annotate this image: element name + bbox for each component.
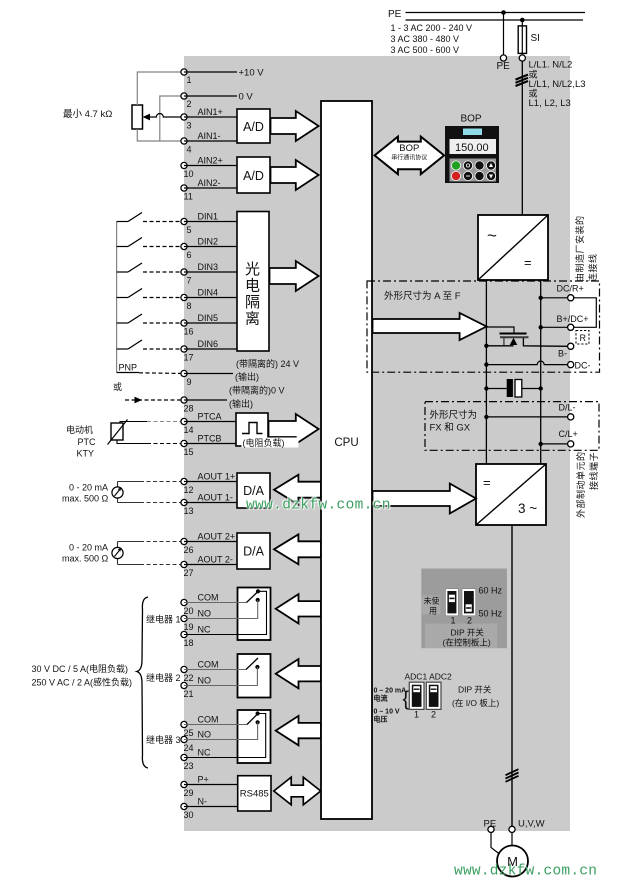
wire supply rail line 2: [406, 19, 584, 21]
svg-text:最小 4.7 kΩ: 最小 4.7 kΩ: [63, 109, 112, 120]
wire AOUT1-: [184, 502, 237, 504]
wire gate lead: [487, 327, 514, 333]
A/D converter box 2: [237, 157, 270, 193]
svg-text:15: 15: [184, 447, 194, 457]
signal arrow PTC to CPU: [269, 414, 319, 444]
transistor chopper channel bar: [500, 336, 529, 338]
relay K3 box: [238, 710, 271, 763]
svg-text:NO: NO: [198, 730, 212, 740]
svg-text:COM: COM: [198, 660, 219, 670]
terminal 23: [181, 754, 187, 760]
node PE supply rail (top line 1): [406, 12, 586, 14]
terminal 20: [181, 599, 187, 605]
PTC input box: [236, 413, 268, 446]
wire PE to motor frame: [491, 833, 500, 855]
svg-text:或: 或: [529, 69, 538, 80]
terminal 24: [181, 736, 187, 742]
wire AOUT1+: [184, 481, 237, 483]
wire PTCA to terminal 14: [120, 422, 147, 424]
relay rating brace: [137, 597, 148, 768]
terminal DC/R+: [568, 295, 574, 301]
DC link capacitor plate black: [507, 379, 513, 397]
svg-text:L1, L2, L3: L1, L2, L3: [529, 98, 571, 109]
svg-text:电: 电: [245, 278, 260, 295]
terminal PE input: [500, 55, 506, 61]
svg-text:27: 27: [184, 568, 194, 578]
svg-text:150.00: 150.00: [455, 142, 489, 154]
terminal U V W: [509, 826, 515, 832]
signal arrow A/D 1 to CPU: [271, 111, 319, 141]
svg-text:N-: N-: [198, 797, 208, 807]
svg-text:=: =: [483, 475, 491, 490]
wire source to B- rail: [486, 345, 513, 347]
svg-text:=: =: [524, 255, 532, 270]
wire DIN5: [184, 322, 237, 324]
svg-text:DIN5: DIN5: [198, 313, 219, 323]
svg-text:DC/R+: DC/R+: [557, 284, 584, 294]
wire terminal 2 branch: [160, 96, 184, 141]
svg-text:3 AC 500 - 600 V: 3 AC 500 - 600 V: [391, 45, 460, 55]
terminal 9: [181, 370, 187, 376]
junction DC- left rail: [484, 362, 488, 366]
svg-text:CPU: CPU: [334, 437, 358, 449]
svg-text:30 V DC / 5 A(电阻负载): 30 V DC / 5 A(电阻负载): [32, 663, 129, 674]
wire N-: [184, 806, 238, 808]
svg-text:继电器 1: 继电器 1: [146, 614, 181, 625]
svg-text:www.dzkfw.com.cn: www.dzkfw.com.cn: [246, 498, 391, 514]
signal double arrow RS485 to CPU: [274, 777, 321, 805]
svg-text:1 - 3 AC 200 - 240 V: 1 - 3 AC 200 - 240 V: [391, 23, 473, 33]
terminal 16: [181, 320, 187, 326]
BOP button red: [451, 171, 461, 181]
svg-text:6: 6: [187, 250, 192, 260]
svg-text:PE: PE: [388, 9, 402, 20]
svg-text:3 AC 380 - 480 V: 3 AC 380 - 480 V: [391, 34, 460, 44]
svg-text:PNP: PNP: [119, 363, 138, 373]
terminal 26: [181, 538, 187, 544]
svg-text:0 - 20 mA: 0 - 20 mA: [69, 483, 108, 493]
svg-text:9: 9: [187, 377, 192, 387]
svg-text:AIN2+: AIN2+: [198, 156, 223, 166]
svg-text:23: 23: [184, 761, 194, 771]
junction on L rail: [520, 18, 525, 23]
terminal 12: [181, 478, 187, 484]
svg-text:P+: P+: [198, 775, 209, 785]
relay K2 box: [238, 654, 271, 698]
svg-text:Fn: Fn: [478, 164, 484, 169]
svg-text:AOUT 1+: AOUT 1+: [198, 472, 236, 482]
svg-text:DIN3: DIN3: [198, 262, 219, 272]
svg-text:U,V,W: U,V,W: [518, 819, 545, 830]
svg-text:1: 1: [187, 75, 192, 85]
svg-text:4: 4: [187, 145, 192, 155]
svg-text:AIN1-: AIN1-: [198, 131, 221, 141]
terminal 6: [181, 243, 187, 249]
terminal 1: [181, 69, 187, 75]
wire DC bus right rail: [540, 280, 542, 464]
svg-text:0 - 20 mA: 0 - 20 mA: [69, 543, 108, 553]
wire B+/DC+: [541, 326, 568, 328]
svg-text:2: 2: [431, 710, 436, 720]
svg-text:BOP: BOP: [460, 114, 481, 125]
signal arrow CPU to D/A 2: [274, 534, 321, 564]
svg-text:60 Hz: 60 Hz: [479, 586, 503, 596]
svg-text:离: 离: [245, 311, 260, 328]
svg-text:串行通讯协议: 串行通讯协议: [391, 154, 427, 162]
signal arrow CPU to inverter: [373, 484, 477, 514]
terminal 29: [181, 781, 187, 787]
terminal 7: [181, 269, 187, 275]
wire PNP to terminal 9: [117, 372, 139, 374]
junction C/L+ right rail: [539, 442, 543, 446]
svg-text:光: 光: [245, 261, 260, 278]
terminal L/L1 input: [519, 55, 525, 61]
terminal 13: [181, 499, 187, 505]
wire UVW to motor: [511, 833, 513, 846]
svg-text:由制造厂安装的: 由制造厂安装的: [574, 215, 585, 282]
transistor drain stub and wire to B-: [523, 338, 567, 346]
wire terminal 9 stub: [184, 373, 233, 375]
terminal 27: [181, 561, 187, 567]
svg-text:D/L-: D/L-: [559, 403, 576, 413]
svg-text:电动机: 电动机: [66, 424, 93, 435]
wire PTCB to terminal 15: [117, 440, 147, 444]
BOP button down: [486, 171, 496, 181]
relay3 NO contact dot: [256, 720, 260, 724]
wire D/L-: [486, 416, 567, 418]
wire AOUT2-: [184, 564, 237, 566]
junction D/L- left rail: [484, 415, 488, 419]
svg-text:DIP 开关: DIP 开关: [458, 685, 492, 695]
svg-text:外形尺寸为 A 至 F: 外形尺寸为 A 至 F: [384, 290, 461, 302]
svg-text:连接线: 连接线: [587, 253, 598, 282]
wire AIN1-: [184, 140, 237, 142]
wire NO relay3: [184, 722, 258, 739]
signal arrow CPU to relay1: [276, 594, 321, 623]
DC link capacitor plate white: [515, 380, 522, 398]
signal arrow CPU to D/A 1: [274, 475, 321, 505]
svg-text:C/L+: C/L+: [559, 429, 578, 439]
svg-text:(在控制板上): (在控制板上): [443, 638, 491, 648]
wire AIN1+: [184, 116, 237, 118]
svg-text:DIN4: DIN4: [198, 288, 219, 298]
junction capacitor right rail: [539, 386, 543, 390]
svg-text:12: 12: [184, 485, 194, 495]
transistor body arrow: [510, 338, 518, 345]
BOP button green: [451, 161, 461, 171]
DIP switch 1 (50/60Hz): [445, 589, 458, 616]
terminal 30: [181, 803, 187, 809]
svg-text:A/D: A/D: [243, 169, 264, 183]
terminal 22: [181, 666, 187, 672]
svg-text:AIN2-: AIN2-: [198, 178, 221, 188]
svg-text:AOUT 2-: AOUT 2-: [198, 555, 233, 565]
svg-text:隔: 隔: [245, 294, 260, 311]
wire COM relay1: [184, 602, 247, 604]
junction on PE rail: [501, 10, 506, 15]
svg-text:30: 30: [184, 810, 194, 820]
svg-text:NC: NC: [198, 748, 211, 758]
BOP button reverse: [463, 171, 473, 181]
BOP button jog: [463, 161, 473, 171]
wire DIN2: [184, 246, 237, 248]
switch DIN1: [117, 213, 184, 222]
wire pot bottom to terminal 4: [137, 129, 184, 141]
terminal B+/DC+: [568, 324, 574, 330]
relay K1 box: [238, 588, 271, 641]
svg-text:PTC: PTC: [78, 437, 97, 447]
svg-text:DIP 开关: DIP 开关: [451, 628, 485, 638]
svg-text:外部制动单元的: 外部制动单元的: [575, 451, 586, 518]
svg-text:2: 2: [467, 616, 472, 626]
wire capacitor left: [486, 388, 506, 390]
signal arrow opto to CPU: [270, 261, 319, 291]
svg-text:D/A: D/A: [243, 484, 265, 498]
relay2 blade open: [246, 658, 258, 670]
svg-text:FX 和 GX: FX 和 GX: [430, 423, 471, 434]
relay3 top contact dot: [256, 711, 260, 715]
motor M: [497, 846, 528, 877]
DIP switch panel (control board): [421, 569, 507, 649]
terminal 10: [181, 162, 187, 168]
D/A converter box 2: [237, 533, 270, 569]
ammeter AOUT2 loop: [117, 542, 119, 565]
inverter block: [476, 464, 546, 525]
svg-text:继电器 2: 继电器 2: [146, 672, 181, 683]
wire NC relay1: [184, 591, 267, 634]
terminal C/L+: [568, 441, 574, 447]
wire wiper to terminal 3 with hop: [147, 114, 184, 117]
svg-text:或: 或: [113, 381, 122, 392]
terminal 4: [181, 138, 187, 144]
switch DIN4: [117, 289, 184, 298]
thermistor PTC sensor: [111, 423, 123, 440]
svg-text:20: 20: [184, 606, 194, 616]
A/D converter box 1: [237, 109, 270, 143]
wire arrow into terminal 28: [125, 399, 184, 401]
signal arrow CPU to chopper gate: [373, 313, 487, 340]
svg-text:B+/DC+: B+/DC+: [557, 314, 589, 324]
wire DIN1: [184, 221, 237, 223]
BOP button P: [475, 171, 485, 181]
relay1 blade: [247, 591, 259, 603]
svg-text:(带隔离的)0 V: (带隔离的)0 V: [229, 385, 285, 396]
switch DIN5: [117, 314, 184, 323]
svg-text:24: 24: [184, 743, 194, 753]
terminal 18: [181, 631, 187, 637]
svg-text:COM: COM: [198, 715, 219, 725]
svg-text:17: 17: [184, 353, 194, 363]
terminal 14: [181, 418, 187, 424]
svg-text:13: 13: [184, 506, 194, 516]
relay3 blade: [247, 714, 258, 725]
svg-text:11: 11: [184, 192, 193, 202]
BOP button fn: [475, 161, 485, 171]
svg-text:KTY: KTY: [77, 449, 95, 459]
svg-text:AOUT 2+: AOUT 2+: [198, 532, 236, 542]
DIP caption lighter area: [425, 624, 497, 649]
DIP switch 2 (50/60Hz): [462, 589, 476, 616]
junction DC/R+: [539, 296, 543, 300]
BOP cyan window: [463, 129, 482, 136]
terminal B-: [568, 343, 574, 349]
wire L/L1 down to rectifier: [521, 61, 523, 215]
svg-text:或: 或: [529, 88, 538, 99]
wire AIN2-: [184, 187, 238, 189]
svg-text:10: 10: [184, 169, 194, 179]
unused label highlight: [421, 596, 440, 615]
terminal 17: [181, 346, 187, 352]
terminal PE output: [488, 826, 494, 832]
svg-text:PTCA: PTCA: [198, 412, 222, 422]
svg-text:NO: NO: [198, 609, 212, 619]
svg-text:3: 3: [187, 121, 192, 131]
junction B+/DC+: [539, 325, 543, 329]
BOP serial link double arrow: [375, 137, 445, 175]
svg-text:0 – 20 mA: 0 – 20 mA: [374, 688, 407, 695]
svg-text:19: 19: [184, 622, 194, 632]
svg-text:PE: PE: [497, 61, 511, 72]
svg-text:28: 28: [184, 404, 194, 414]
svg-text:电流: 电流: [374, 694, 388, 703]
svg-text:16: 16: [184, 327, 194, 337]
svg-text:NC: NC: [198, 625, 211, 635]
svg-text:1: 1: [414, 710, 419, 720]
wire PE drop: [503, 13, 505, 57]
svg-text:P: P: [478, 175, 481, 180]
svg-text:+10 V: +10 V: [239, 68, 265, 79]
wire DIN4: [184, 297, 237, 299]
wire NC relay3: [184, 714, 266, 758]
signal arrow A/D 2 to CPU: [271, 160, 319, 190]
label opto-isolation vertical: [245, 261, 260, 328]
svg-text:2: 2: [187, 99, 192, 109]
svg-text:继电器 3: 继电器 3: [146, 734, 181, 745]
svg-text:22: 22: [184, 673, 194, 683]
terminal 2: [181, 93, 187, 99]
svg-text:外形尺寸为: 外形尺寸为: [430, 409, 478, 421]
frame size FX GX dash-dot box: [425, 402, 599, 451]
relay1 NO contact dot: [256, 598, 260, 602]
BOP button up: [486, 161, 496, 171]
svg-text:DIN1: DIN1: [198, 212, 219, 222]
terminal 11: [181, 185, 187, 191]
svg-text:A/D: A/D: [243, 120, 264, 134]
switch DIN2: [117, 238, 184, 247]
relay2 NO contact dot: [255, 665, 259, 669]
wire DIN3: [184, 271, 237, 273]
potentiometer R pot: [132, 105, 143, 129]
BOP display 150.00: [450, 139, 497, 154]
svg-text:(输出): (输出): [229, 398, 253, 409]
terminal D/L-: [568, 414, 574, 420]
svg-text:RS485: RS485: [240, 789, 269, 800]
ammeter AOUT1 loop: [117, 482, 119, 503]
svg-text:DIN6: DIN6: [198, 339, 219, 349]
wire C/L+: [541, 443, 568, 445]
operator panel BOP body: [445, 126, 499, 183]
braking resistor R optional: [576, 331, 589, 345]
wire inverter output to motor: [511, 525, 513, 827]
terminal 5: [181, 218, 187, 224]
wire NO relay1: [184, 600, 258, 619]
ADC DIP switch 2: [426, 682, 441, 709]
wire NO relay2: [184, 667, 257, 686]
terminal 3: [181, 114, 187, 120]
svg-text:max. 500 Ω: max. 500 Ω: [62, 554, 109, 564]
svg-text:max. 500 Ω: max. 500 Ω: [62, 494, 109, 504]
terminal 28: [181, 397, 187, 403]
svg-text:29: 29: [184, 788, 194, 798]
svg-text:(输出): (输出): [235, 371, 259, 382]
wire DIN6: [184, 348, 237, 350]
svg-text:电压: 电压: [374, 715, 388, 724]
fuse SI: [518, 26, 526, 54]
wire DC/R+: [541, 297, 568, 299]
svg-text:PTCB: PTCB: [198, 434, 222, 444]
rectifier block: [478, 215, 548, 280]
signal arrow CPU to relay2: [276, 659, 321, 688]
terminal 15: [181, 440, 187, 446]
wire pot top to terminal 1: [137, 72, 184, 105]
svg-text:DC-: DC-: [575, 361, 591, 371]
svg-text:(带隔离的) 24 V: (带隔离的) 24 V: [236, 358, 299, 369]
switch DIN6: [117, 340, 184, 349]
svg-text:21: 21: [184, 689, 194, 699]
svg-text:5: 5: [187, 225, 192, 235]
digital input switch bus: [116, 222, 118, 373]
svg-text:DIN2: DIN2: [198, 237, 219, 247]
wire capacitor right: [522, 388, 541, 390]
junction capacitor left rail: [484, 386, 488, 390]
svg-text:PE: PE: [484, 819, 497, 830]
wire fuse to L/L1 terminal: [521, 53, 523, 58]
terminal 8: [181, 294, 187, 300]
svg-text:SI: SI: [531, 33, 540, 44]
svg-text:AIN1+: AIN1+: [198, 107, 223, 117]
PTC pulse symbol: [242, 423, 263, 434]
wire PTCB: [184, 443, 236, 445]
wire AIN2+: [184, 165, 238, 167]
wire terminal 1 to +10V label: [184, 71, 237, 73]
svg-text:www.dzkfw.com.cn: www.dzkfw.com.cn: [454, 864, 597, 880]
svg-text:COM: COM: [198, 593, 219, 603]
svg-text:0 V: 0 V: [239, 92, 254, 103]
svg-text:用: 用: [429, 607, 437, 616]
wire COM relay2: [184, 669, 246, 671]
svg-text:AOUT 1-: AOUT 1-: [198, 493, 233, 503]
svg-text:(电阻负载): (电阻负载): [243, 437, 285, 448]
junction source on left rail: [484, 344, 488, 348]
transistor source stub: [503, 338, 505, 345]
svg-text:未使: 未使: [424, 596, 440, 606]
D/A converter box 1: [237, 473, 270, 508]
RS485 interface box: [238, 776, 271, 811]
wire PTCA: [184, 421, 236, 423]
svg-text:250 V AC / 2 A(感性负载): 250 V AC / 2 A(感性负载): [32, 677, 133, 688]
wire P+: [184, 784, 238, 786]
switch DIN3: [117, 263, 184, 272]
cable hash marks on L/L1 wire: [516, 75, 529, 86]
svg-text:26: 26: [184, 545, 194, 555]
wiper arrowhead: [143, 114, 151, 121]
wire DC- with hop: [486, 361, 567, 365]
wire factory jumper DC/R+ to B+/DC+: [574, 298, 596, 328]
ADC DIP switch 1: [409, 682, 424, 709]
terminal DC-: [568, 362, 574, 368]
wire DC bus left rail: [485, 280, 487, 464]
svg-text:7: 7: [187, 276, 192, 286]
